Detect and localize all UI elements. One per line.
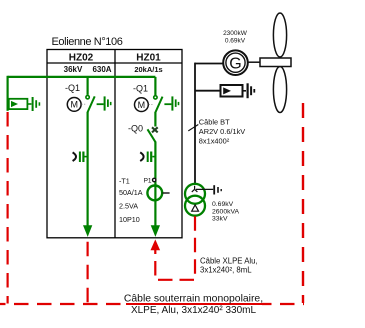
wire generator horizontal [195, 63, 223, 65]
svg-text:HZ01: HZ01 [136, 53, 161, 64]
cable HZ02 outgoing [86, 240, 88, 303]
switch -Q0 (fuse striker star) [148, 127, 158, 142]
wye symbol [192, 186, 198, 192]
voltage indicator VPIS (HZ01) [140, 152, 155, 163]
wire transformer neutral [196, 188, 213, 190]
svg-text:Câble XLPE Alu,: Câble XLPE Alu, [200, 256, 258, 265]
svg-text:33kV: 33kV [212, 216, 228, 223]
ground (left arrester earth) [33, 97, 40, 111]
ground (generator arrester earth) [248, 83, 255, 98]
wire HZ01 between Q1 and Q0 [154, 112, 156, 126]
current transformer T1 [147, 186, 169, 201]
svg-text:-Q1: -Q1 [133, 84, 148, 94]
svg-text:0.69kV: 0.69kV [225, 38, 246, 45]
svg-text:-Q0: -Q0 [128, 124, 143, 134]
motor operator M (HZ02) [67, 98, 85, 112]
wire shaft [248, 61, 261, 63]
surge arrester F2 (generator, black) [221, 85, 247, 97]
svg-text:P1: P1 [144, 177, 152, 184]
svg-text:2300kW: 2300kW [223, 30, 248, 37]
ground (HZ01 earth switch contact) [172, 96, 178, 110]
delta symbol [192, 205, 199, 211]
surge arrester F1 (incoming, green) [9, 99, 32, 109]
cable bottom network under text [126, 303, 262, 305]
wire HZ01 feeder [154, 142, 156, 227]
wire HZ02 drop from busbar [86, 77, 88, 95]
transformer T2 primary winding [185, 184, 205, 204]
svg-text:Câble BT: Câble BT [199, 118, 230, 127]
wire generator riser to transformer [194, 63, 196, 185]
cable bottom network right segment [262, 303, 304, 305]
generator G [223, 50, 248, 75]
svg-text:AR2V 0.6/1kV: AR2V 0.6/1kV [199, 127, 245, 136]
rotor blade upper [273, 13, 286, 57]
svg-text:M: M [138, 100, 146, 110]
leader line to cable note [188, 125, 198, 131]
arrow into HZ01 [151, 239, 161, 250]
wire left riser [6, 76, 8, 111]
cable left incoming (red dashed) [6, 112, 8, 304]
outgoing arrow HZ01 [151, 225, 160, 237]
svg-text:2600kVA: 2600kVA [212, 208, 240, 215]
svg-text:2.5VA: 2.5VA [119, 201, 138, 210]
svg-text:50A/1A: 50A/1A [119, 188, 143, 197]
svg-text:0.69kV: 0.69kV [212, 201, 234, 208]
ground (HZ02 earth switch contact) [105, 96, 111, 110]
motor operator M (HZ01) [135, 98, 153, 112]
busbar wire [8, 76, 156, 78]
svg-text:M: M [70, 100, 78, 110]
cable transformer to HZ01 [155, 216, 195, 279]
svg-text:10P10: 10P10 [119, 215, 140, 224]
svg-text:XLPE, Alu, 3x1x240² 330mL: XLPE, Alu, 3x1x240² 330mL [131, 305, 257, 316]
outgoing arrow HZ02 [83, 225, 92, 237]
svg-text:3x1x240², 8mL: 3x1x240², 8mL [200, 266, 252, 275]
svg-text:-Q1: -Q1 [65, 83, 80, 93]
transformer T2 secondary winding [185, 196, 205, 216]
svg-text:20kA/1s: 20kA/1s [134, 65, 162, 74]
wire HZ01 drop from busbar [154, 77, 156, 95]
svg-text:8x1x400²: 8x1x400² [199, 136, 230, 145]
rotor hub [260, 58, 291, 67]
svg-text:HZ02: HZ02 [69, 53, 94, 64]
cable right network riser [302, 103, 304, 303]
rotor blade lower [273, 67, 286, 113]
voltage indicator VPIS (HZ02) [73, 152, 88, 163]
wire arrester branch [195, 90, 221, 92]
cubicle enclosure box [47, 50, 182, 238]
cable bottom network left segment [0, 303, 126, 305]
ground (transformer neutral earth) [214, 185, 221, 194]
svg-text:Eolienne N°106: Eolienne N°106 [52, 36, 123, 48]
wire HZ02 feeder [86, 112, 88, 226]
svg-text:-T1: -T1 [119, 176, 130, 185]
svg-text:Câble souterrain monopolaire,: Câble souterrain monopolaire, [124, 294, 263, 305]
svg-text:630A: 630A [92, 65, 111, 74]
svg-text:G: G [229, 56, 241, 73]
svg-text:36kV: 36kV [64, 65, 83, 74]
switch -Q1 HZ02 (three position) [86, 96, 104, 113]
switch -Q1 HZ01 (three position) [154, 96, 172, 113]
